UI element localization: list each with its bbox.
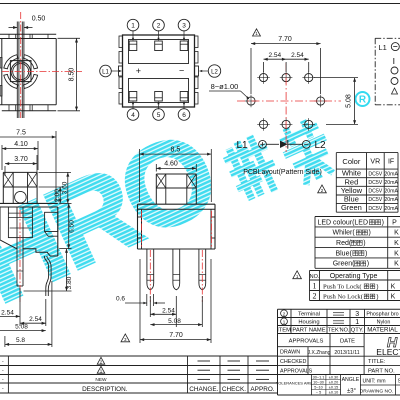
svg-text:L2: L2 <box>314 140 326 151</box>
svg-text:2.54: 2.54 <box>29 316 42 323</box>
dimension 0.50 <box>9 27 18 29</box>
svg-text:MATERIAL: MATERIAL <box>367 327 398 334</box>
svg-text:DC5V: DC5V <box>368 206 382 212</box>
view A center lines <box>20 12 22 118</box>
svg-text:L1: L1 <box>102 69 109 75</box>
svg-text:5.08: 5.08 <box>346 94 353 108</box>
view C pins <box>147 249 154 290</box>
title block frame <box>278 308 400 310</box>
svg-text:K: K <box>394 230 399 237</box>
svg-text:DRAWN: DRAWN <box>280 350 300 356</box>
view B dome <box>15 191 27 203</box>
svg-text:20mA: 20mA <box>384 197 398 203</box>
dimension 3.60 2.00 <box>39 171 72 173</box>
svg-text:Push To Lock(: Push To Lock( <box>323 283 362 290</box>
svg-text:ELECT: ELECT <box>376 347 400 357</box>
svg-text:20mA: 20mA <box>384 171 398 177</box>
dimension 2.54 2.54 pcb <box>263 62 265 72</box>
svg-text:5: 5 <box>157 112 161 119</box>
watermark registered mark <box>356 92 370 106</box>
svg-text:±0.10: ±0.10 <box>329 391 338 395</box>
dimension 3.80 <box>24 290 72 292</box>
svg-text:2013/11/11: 2013/11/11 <box>334 350 359 356</box>
svg-text:ITEM: ITEM <box>277 328 291 334</box>
svg-text:APPROVALS: APPROVALS <box>289 339 324 345</box>
svg-text:3: 3 <box>355 311 359 318</box>
svg-text:5.08: 5.08 <box>15 324 28 331</box>
view C flange <box>138 203 216 205</box>
svg-text:DC5V: DC5V <box>368 171 382 177</box>
dimension 4.10 <box>1 145 3 170</box>
view A bezel corner petals <box>24 55 38 69</box>
svg-text:Blue(: Blue( <box>335 250 352 257</box>
svg-text:PCBLayout(Pattern Side): PCBLayout(Pattern Side) <box>243 169 322 176</box>
revision triangle near color table <box>318 185 327 193</box>
svg-text:ANGLE: ANGLE <box>342 377 360 383</box>
svg-text:DRAWING NO.: DRAWING NO. <box>360 389 394 395</box>
svg-text:J.X.Zhang: J.X.Zhang <box>308 350 331 356</box>
watermark Chinese char 1 <box>230 152 250 197</box>
svg-text:DC5V: DC5V <box>368 189 382 195</box>
legend box <box>375 37 400 39</box>
svg-text:APPRO.: APPRO. <box>250 386 274 393</box>
svg-text:P: P <box>392 219 397 226</box>
svg-text:3.60: 3.60 <box>61 181 68 194</box>
svg-text:Phosphar bro: Phosphar bro <box>366 312 398 318</box>
svg-text:3: 3 <box>182 23 186 30</box>
tolerance block <box>310 375 312 396</box>
view A body flange bottom <box>0 104 56 106</box>
svg-text:K: K <box>391 294 396 301</box>
view B side notch <box>45 212 58 231</box>
view C bottom dimensions <box>149 296 151 317</box>
svg-text:CHECKED: CHECKED <box>280 359 306 365</box>
svg-text:): ) <box>382 219 384 226</box>
svg-text:TOLERANCES ARE: TOLERANCES ARE <box>276 381 312 386</box>
svg-text:PART NAME: PART NAME <box>292 328 325 334</box>
operating type table <box>310 270 400 272</box>
svg-text:±3°: ±3° <box>347 388 357 394</box>
svg-text:2: 2 <box>157 23 161 30</box>
svg-text:0.6: 0.6 <box>116 296 125 303</box>
svg-text:2.54: 2.54 <box>162 308 175 315</box>
svg-text:CHECK.: CHECK. <box>222 386 246 393</box>
svg-text:1: 1 <box>355 319 359 326</box>
svg-text:2.54: 2.54 <box>1 309 14 316</box>
svg-text:Housing: Housing <box>298 320 319 326</box>
view D L2 tab <box>195 66 199 76</box>
svg-text:L1: L1 <box>236 140 248 151</box>
svg-text:Nylon: Nylon <box>377 320 391 326</box>
svg-text:L2: L2 <box>211 69 218 75</box>
svg-text:6: 6 <box>182 112 186 119</box>
svg-text:30~1.1: 30~1.1 <box>313 376 325 380</box>
svg-text:Yellow: Yellow <box>341 186 363 195</box>
svg-text:4.10: 4.10 <box>14 141 28 148</box>
svg-text:CHANGE.: CHANGE. <box>189 386 218 393</box>
dimension 4.60 <box>155 164 157 172</box>
svg-text:±0.15: ±0.15 <box>329 386 338 390</box>
view B cap hatching <box>3 172 13 187</box>
svg-text:K: K <box>394 240 399 247</box>
callout L1 <box>100 65 112 77</box>
svg-text:L1: L1 <box>379 43 387 52</box>
view D body <box>123 35 195 107</box>
svg-text:NO.: NO. <box>310 274 320 280</box>
svg-text:UNIT: mm: UNIT: mm <box>362 379 385 385</box>
svg-text:Color: Color <box>342 157 360 166</box>
svg-text:+: + <box>136 66 141 76</box>
PCB center lines <box>237 100 341 102</box>
view D terminals <box>129 41 137 51</box>
svg-text:R: R <box>359 95 367 106</box>
view B bent lead <box>44 256 48 296</box>
svg-text:−: − <box>179 66 184 76</box>
revision table <box>0 355 278 357</box>
svg-text:~ 5: ~ 5 <box>316 391 321 395</box>
svg-text:Red(: Red( <box>336 240 352 247</box>
view D side tabs right <box>195 36 199 48</box>
svg-text:10~30: 10~30 <box>313 381 324 385</box>
dimension 3.70 <box>4 166 6 176</box>
dimension 8.50 <box>58 37 81 39</box>
svg-text:NEW: NEW <box>95 377 107 383</box>
svg-text:1: 1 <box>313 281 317 290</box>
svg-text:4.60: 4.60 <box>164 161 178 168</box>
revision triangle near 7.70 <box>121 334 130 342</box>
callout L2 <box>208 65 220 77</box>
color table <box>336 152 398 154</box>
svg-text:2: 2 <box>313 292 317 301</box>
svg-text:3.70: 3.70 <box>14 156 28 163</box>
svg-text:7.70: 7.70 <box>278 36 292 43</box>
view C side tabs <box>138 217 142 238</box>
pin number callouts 4-6 <box>127 109 139 121</box>
svg-text:TITLE:: TITLE: <box>368 359 386 365</box>
svg-text:5.8: 5.8 <box>16 337 25 344</box>
svg-text:8.5: 8.5 <box>171 146 181 153</box>
view D inner recess top <box>129 40 189 64</box>
view B body outline <box>0 207 1 240</box>
PCB holes <box>259 74 267 82</box>
view B button cap <box>3 171 37 173</box>
pin number callouts 1-3 <box>127 19 139 31</box>
view D inner recess bottom <box>129 79 189 103</box>
svg-text:): ) <box>376 283 378 290</box>
svg-text:Operating Type: Operating Type <box>330 273 378 280</box>
svg-text:8−ø1.00: 8−ø1.00 <box>211 82 239 91</box>
view B stem and lead <box>16 207 18 286</box>
svg-text:Push No Lock(: Push No Lock( <box>323 294 363 301</box>
dimension 7.70 pcb <box>250 48 252 94</box>
view A left tabs <box>0 58 2 69</box>
svg-text:±0.20: ±0.20 <box>329 381 338 385</box>
view B inner contacts <box>8 207 32 238</box>
svg-text:LED colour(LED: LED colour(LED <box>317 219 368 226</box>
svg-text:DC5V: DC5V <box>368 180 382 186</box>
svg-text:DESCRIPTION.: DESCRIPTION. <box>82 386 128 393</box>
parts list <box>278 317 400 319</box>
svg-text:20mA: 20mA <box>384 180 398 186</box>
view C button cap <box>156 173 196 175</box>
svg-text:2.54: 2.54 <box>268 52 281 59</box>
svg-text:Green: Green <box>341 203 362 212</box>
revision triangle near operating table <box>293 271 302 279</box>
svg-text:2.54: 2.54 <box>291 52 304 59</box>
svg-text:0.50: 0.50 <box>32 16 46 23</box>
view C cap hatching <box>156 174 166 188</box>
dimension 7.5 <box>55 131 57 202</box>
view C body <box>137 204 139 249</box>
sheet top border <box>0 3 400 5</box>
svg-text:5~10: 5~10 <box>314 386 323 390</box>
svg-text:DATE: DATE <box>340 339 355 345</box>
svg-text:): ) <box>376 294 378 301</box>
view C side lead centerlines <box>141 211 143 248</box>
approvals section <box>278 346 365 348</box>
view B lead1 centerline <box>19 210 21 302</box>
dimension 8.5 <box>139 149 141 202</box>
revision triangle near pcb <box>253 29 261 36</box>
svg-text:2.00: 2.00 <box>54 189 61 202</box>
svg-text:): ) <box>367 261 369 268</box>
svg-text:20mA: 20mA <box>384 206 398 212</box>
svg-text:VR: VR <box>370 159 380 166</box>
view A button frame square <box>10 61 31 82</box>
view D side tabs left <box>119 36 123 48</box>
dimension 5.08 pcb <box>314 77 358 79</box>
view A shaft <box>16 22 18 119</box>
svg-text:7.5: 7.5 <box>16 129 26 136</box>
svg-text:20mA: 20mA <box>384 189 398 195</box>
svg-text:K: K <box>391 283 396 290</box>
dimension 6.50 <box>59 202 71 204</box>
svg-text:Green(: Green( <box>333 261 355 268</box>
view A body flange top <box>0 33 56 35</box>
view B bottom dimensions <box>19 288 21 326</box>
svg-text:3.80: 3.80 <box>66 276 73 289</box>
sheet bottom border <box>278 394 400 396</box>
svg-text:DC5V: DC5V <box>368 197 382 203</box>
svg-text:): ) <box>365 250 367 257</box>
svg-text:6.50: 6.50 <box>69 220 76 233</box>
svg-text:Whiler(: Whiler( <box>333 230 356 237</box>
svg-text:): ) <box>368 230 370 237</box>
svg-text:5.08: 5.08 <box>168 318 181 325</box>
svg-text:IF: IF <box>388 159 394 166</box>
svg-text:K: K <box>394 250 399 257</box>
svg-text:1: 1 <box>131 23 135 30</box>
view B flange <box>0 202 58 204</box>
view C pin centerlines <box>149 250 151 302</box>
svg-text:K: K <box>394 261 399 268</box>
watermark Chinese char 2 <box>284 126 315 140</box>
view A button circles <box>11 62 30 81</box>
LED colour table <box>315 216 400 218</box>
svg-text:±0.30: ±0.30 <box>329 376 338 380</box>
svg-text:TEK'NO.: TEK'NO. <box>328 328 350 334</box>
view A body outline <box>1 39 3 105</box>
view D L1 tab <box>119 66 123 76</box>
svg-text:8.50: 8.50 <box>69 68 76 82</box>
revision rows content <box>97 357 105 364</box>
svg-text:7.70: 7.70 <box>169 332 183 339</box>
svg-text:): ) <box>363 240 365 247</box>
svg-text:PART NO.: PART NO. <box>368 368 395 374</box>
svg-text:Terminal: Terminal <box>298 312 320 318</box>
svg-text:APPROVALS: APPROVALS <box>280 368 313 374</box>
svg-text:4: 4 <box>131 112 135 119</box>
svg-text:QTY.: QTY. <box>351 328 364 334</box>
